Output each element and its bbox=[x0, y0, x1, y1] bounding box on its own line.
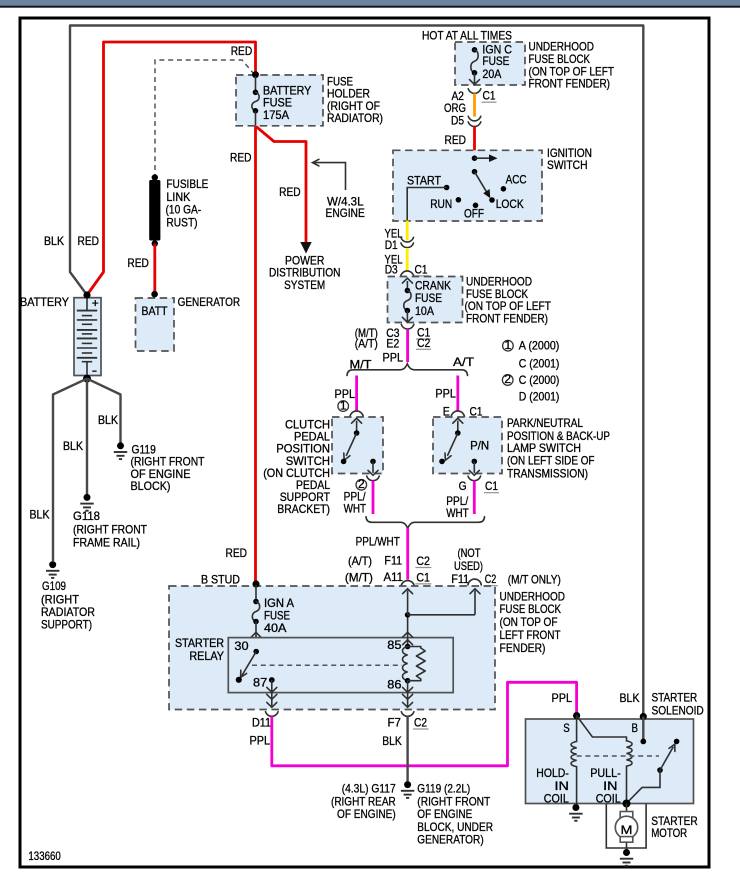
svg-text:86: 86 bbox=[387, 677, 402, 691]
svg-text:D3: D3 bbox=[385, 262, 398, 276]
svg-text:PPL: PPL bbox=[250, 734, 271, 748]
wire START to YEL bbox=[407, 188, 446, 221]
svg-text:RED: RED bbox=[230, 151, 252, 165]
ground G117/G119 bbox=[404, 781, 411, 788]
svg-text:RED: RED bbox=[127, 256, 149, 270]
svg-text:133660: 133660 bbox=[28, 849, 61, 863]
svg-text:FENDER): FENDER) bbox=[500, 641, 546, 655]
svg-text:STARTER: STARTER bbox=[652, 690, 698, 704]
wire YEL 2 bbox=[406, 248, 409, 271]
wire PPL relay to solenoid S bbox=[272, 682, 577, 766]
svg-text:G118: G118 bbox=[73, 509, 100, 523]
relay 87 exit to D11 bbox=[271, 680, 273, 707]
relay coil 85-86 with resistor bbox=[403, 632, 413, 637]
generator box bbox=[136, 298, 175, 351]
wire RED branch to power distribution bbox=[256, 126, 307, 243]
svg-text:LEFT FRONT: LEFT FRONT bbox=[500, 628, 562, 642]
node B STUD bbox=[252, 580, 259, 587]
ignition switch wiper bbox=[472, 169, 478, 175]
svg-text:IN: IN bbox=[555, 779, 569, 793]
fuse BATTERY FUSE 175A bbox=[255, 76, 257, 92]
ground G118 bbox=[84, 494, 91, 501]
svg-text:SUPPORT): SUPPORT) bbox=[41, 618, 92, 632]
contact RUN bbox=[456, 197, 462, 203]
clutch pedal position switch box bbox=[332, 417, 383, 474]
svg-text:WHT: WHT bbox=[446, 506, 469, 520]
svg-text:USED): USED) bbox=[454, 559, 483, 573]
wire BLK F7 to ground bbox=[406, 716, 408, 781]
split brace bbox=[347, 364, 468, 376]
wire RED to ignition switch bbox=[473, 127, 476, 158]
note 2 marker bbox=[356, 480, 367, 491]
park/neutral switch contacts bbox=[457, 421, 459, 433]
svg-text:IN: IN bbox=[603, 779, 617, 793]
svg-text:BATT: BATT bbox=[142, 304, 169, 318]
ignition switch feed node bbox=[472, 155, 478, 161]
svg-text:G: G bbox=[459, 479, 467, 493]
svg-text:(M/T ONLY): (M/T ONLY) bbox=[508, 572, 561, 586]
window top band bbox=[0, 0, 740, 6]
svg-text:(A/T): (A/T) bbox=[355, 336, 378, 350]
svg-text:B STUD: B STUD bbox=[201, 572, 240, 586]
fuse holder box bbox=[236, 75, 323, 126]
svg-text:HOLD-: HOLD- bbox=[536, 766, 569, 780]
svg-text:F11: F11 bbox=[451, 572, 469, 586]
svg-text:M/T: M/T bbox=[350, 357, 373, 371]
underhood fuse block box (CRANK) bbox=[388, 277, 463, 323]
wire PPL/WHT park/neutral bbox=[473, 481, 476, 514]
svg-text:87: 87 bbox=[253, 675, 268, 689]
svg-text:RED: RED bbox=[78, 234, 100, 248]
ground G109 bbox=[49, 561, 56, 568]
svg-text:C2: C2 bbox=[414, 716, 427, 730]
svg-text:C2: C2 bbox=[416, 554, 430, 568]
svg-text:10A: 10A bbox=[415, 304, 434, 318]
svg-text:(M/T): (M/T) bbox=[345, 570, 373, 584]
wire RED fusible link to generator bbox=[153, 244, 156, 294]
svg-text:D11: D11 bbox=[252, 716, 271, 730]
battery BATTERY bbox=[74, 298, 101, 376]
svg-text:B: B bbox=[632, 721, 639, 735]
svg-text:RED: RED bbox=[445, 133, 467, 147]
svg-text:BLK: BLK bbox=[63, 439, 83, 453]
svg-text:(NOT: (NOT bbox=[458, 546, 482, 560]
svg-text:1: 1 bbox=[505, 338, 512, 352]
svg-text:C (2001): C (2001) bbox=[519, 356, 560, 370]
svg-text:LOCK: LOCK bbox=[496, 197, 524, 211]
svg-text:A (2000): A (2000) bbox=[519, 338, 560, 352]
wire BLK to G118 bbox=[86, 379, 88, 494]
solenoid B terminal bbox=[640, 713, 647, 720]
clutch switch contacts bbox=[356, 421, 358, 433]
contact START bbox=[444, 185, 450, 191]
svg-text:BLK: BLK bbox=[30, 508, 50, 522]
svg-text:PPL: PPL bbox=[435, 386, 456, 400]
svg-text:RELAY: RELAY bbox=[189, 649, 224, 663]
relay 86 exit to F7 bbox=[407, 681, 409, 707]
svg-text:PPL: PPL bbox=[383, 351, 404, 365]
svg-text:GENERATOR: GENERATOR bbox=[178, 295, 241, 309]
hold-in coil bbox=[571, 716, 577, 807]
svg-text:BLOCK): BLOCK) bbox=[131, 479, 171, 493]
svg-text:STARTER: STARTER bbox=[175, 636, 224, 650]
svg-text:M: M bbox=[621, 823, 633, 837]
svg-text:ACC: ACC bbox=[506, 173, 527, 187]
svg-text:1: 1 bbox=[340, 398, 347, 412]
svg-text:RUST): RUST) bbox=[166, 215, 197, 229]
underhood fuse block / starter relay dashed box bbox=[169, 586, 495, 710]
connector clutch top bbox=[350, 411, 363, 417]
starter motor M bbox=[626, 804, 628, 812]
svg-text:FUSE BLOCK: FUSE BLOCK bbox=[500, 602, 562, 616]
svg-text:40A: 40A bbox=[264, 621, 287, 635]
svg-text:A/T: A/T bbox=[453, 355, 475, 369]
wire PPL A/T branch bbox=[456, 376, 459, 411]
hold-in coil ground bbox=[572, 804, 579, 811]
fuse IGN C FUSE 20A bbox=[472, 47, 478, 53]
starter solenoid box bbox=[526, 719, 694, 804]
underhood fuse block box (IGN C) bbox=[455, 42, 525, 85]
svg-text:(ON TOP OF: (ON TOP OF bbox=[500, 615, 558, 629]
wire dashed generator to battery-fuse node bbox=[155, 60, 255, 175]
contact OFF bbox=[473, 203, 479, 209]
svg-text:RUN: RUN bbox=[430, 197, 452, 211]
svg-text:TRANSMISSION): TRANSMISSION) bbox=[507, 466, 588, 480]
legend note 2 bbox=[502, 375, 513, 386]
node at generator BATT terminal bbox=[151, 291, 158, 298]
connector A11 arch bbox=[401, 581, 414, 587]
svg-text:PPL/WHT: PPL/WHT bbox=[356, 534, 401, 548]
svg-text:MOTOR: MOTOR bbox=[651, 826, 687, 840]
wire RED battery positive to B STUD bbox=[87, 42, 256, 584]
node battery bottom bbox=[83, 375, 91, 383]
wire BLK to G119 bbox=[87, 379, 121, 443]
ignition switch box bbox=[393, 150, 542, 221]
svg-text:BLK: BLK bbox=[98, 413, 118, 427]
svg-text:OFF: OFF bbox=[464, 207, 484, 221]
svg-text:D1: D1 bbox=[385, 238, 398, 252]
ground G119 bbox=[117, 442, 124, 449]
node at battery fuse input redraw bbox=[252, 71, 259, 78]
svg-text:PPL: PPL bbox=[552, 691, 573, 705]
svg-text:C2: C2 bbox=[485, 572, 497, 586]
fusible link (10 GA-RUST) bbox=[152, 174, 158, 180]
wire BLK to G109 bbox=[53, 379, 87, 561]
solenoid armature dashed link bbox=[577, 755, 659, 757]
svg-text:FRONT FENDER): FRONT FENDER) bbox=[466, 311, 548, 325]
svg-text:COIL: COIL bbox=[596, 792, 621, 806]
svg-text:ENGINE: ENGINE bbox=[326, 206, 365, 220]
solenoid S terminal bbox=[573, 712, 580, 719]
svg-text:BLK: BLK bbox=[382, 734, 402, 748]
svg-text:2: 2 bbox=[504, 372, 511, 386]
svg-text:F11: F11 bbox=[384, 554, 402, 568]
wire PPL M/T branch bbox=[355, 376, 358, 411]
svg-text:C2: C2 bbox=[417, 336, 431, 350]
svg-text:C1: C1 bbox=[416, 570, 430, 584]
callout arrow W/4.3L engine bbox=[313, 163, 346, 190]
svg-text:OF ENGINE): OF ENGINE) bbox=[337, 807, 396, 821]
svg-text:S: S bbox=[563, 721, 570, 735]
pull-in coil bbox=[627, 737, 633, 803]
svg-text:GENERATOR): GENERATOR) bbox=[417, 833, 483, 847]
contact ACC bbox=[501, 186, 507, 192]
svg-text:+: + bbox=[92, 296, 99, 310]
starter relay inner box bbox=[228, 638, 453, 693]
relay armature dashed link bbox=[252, 664, 402, 666]
svg-text:PULL-: PULL- bbox=[590, 766, 621, 780]
relay A11 entry bbox=[405, 612, 411, 618]
svg-text:C (2000): C (2000) bbox=[519, 373, 560, 387]
wire BLK battery positive to starter solenoid B bbox=[70, 26, 643, 717]
svg-text:D (2001): D (2001) bbox=[519, 390, 560, 404]
connector G C1 bbox=[468, 476, 481, 481]
legend note 1 bbox=[503, 340, 514, 351]
svg-text:RADIATOR): RADIATOR) bbox=[327, 111, 383, 125]
svg-text:BATTERY: BATTERY bbox=[20, 295, 69, 309]
svg-text:85: 85 bbox=[387, 638, 402, 652]
svg-text:RED: RED bbox=[231, 44, 253, 58]
svg-text:UNDERHOOD: UNDERHOOD bbox=[500, 589, 566, 603]
svg-text:PARK/NEUTRAL: PARK/NEUTRAL bbox=[507, 416, 583, 430]
connector clutch bottom bbox=[367, 476, 380, 481]
wire YEL bbox=[406, 221, 409, 241]
svg-text:C1: C1 bbox=[415, 262, 428, 276]
node pull-in coil to motor bbox=[623, 800, 631, 808]
svg-text:C1: C1 bbox=[483, 89, 496, 103]
connector C3/E2 C1/C2 bbox=[401, 324, 414, 329]
svg-text:RED: RED bbox=[279, 185, 301, 199]
wire PPL from crank fuse bbox=[406, 329, 409, 362]
svg-text:P/N: P/N bbox=[470, 438, 489, 452]
connector D1 bbox=[401, 237, 414, 242]
svg-text:START: START bbox=[407, 173, 442, 187]
svg-text:(A/T): (A/T) bbox=[348, 554, 372, 568]
node at battery fuse input bbox=[252, 71, 259, 78]
arrow to power distribution system bbox=[300, 242, 311, 254]
merge brace bbox=[366, 517, 485, 529]
connector D5 bbox=[468, 116, 481, 121]
svg-text:(RIGHT FRONT: (RIGHT FRONT bbox=[73, 523, 148, 537]
svg-text:SYSTEM: SYSTEM bbox=[284, 278, 325, 292]
svg-text:COIL: COIL bbox=[544, 792, 569, 806]
svg-text:BRACKET): BRACKET) bbox=[277, 502, 330, 516]
svg-text:WHT: WHT bbox=[344, 502, 367, 516]
connector A2 C1 bbox=[468, 89, 481, 94]
svg-text:F7: F7 bbox=[388, 716, 402, 730]
svg-text:C1: C1 bbox=[485, 479, 498, 493]
svg-text:BLK: BLK bbox=[44, 234, 64, 248]
starter motor ground bbox=[623, 849, 630, 856]
svg-text:SWITCH: SWITCH bbox=[547, 158, 588, 172]
fuse CRANK FUSE 10A bbox=[406, 281, 408, 291]
node battery top bbox=[83, 291, 90, 298]
svg-text:175A: 175A bbox=[263, 108, 289, 122]
svg-text:RED: RED bbox=[226, 546, 248, 560]
starter motor bracket bbox=[606, 804, 646, 848]
park/neutral switch box bbox=[433, 417, 502, 474]
wire PPL/WHT clutch bbox=[372, 481, 375, 514]
svg-text:FRONT FENDER): FRONT FENDER) bbox=[529, 77, 611, 91]
svg-text:A11: A11 bbox=[384, 570, 404, 584]
svg-text:FRAME RAIL): FRAME RAIL) bbox=[73, 536, 140, 550]
fuse IGN A FUSE 40A bbox=[255, 585, 257, 602]
svg-text:30: 30 bbox=[234, 639, 249, 653]
svg-text:G109: G109 bbox=[42, 579, 66, 593]
connector D3 C1 bbox=[401, 271, 414, 277]
svg-text:BLK: BLK bbox=[620, 691, 640, 705]
wire PPL/WHT to relay bbox=[406, 528, 409, 580]
note 1 marker bbox=[338, 401, 349, 412]
svg-text:D5: D5 bbox=[451, 114, 464, 128]
svg-text:SOLENOID: SOLENOID bbox=[652, 703, 704, 717]
svg-text:HOT AT ALL TIMES: HOT AT ALL TIMES bbox=[422, 29, 512, 43]
wire S to pull-in coil bbox=[577, 716, 627, 737]
solenoid switch bbox=[657, 767, 663, 773]
svg-text:20A: 20A bbox=[482, 67, 501, 81]
wire ORG bbox=[473, 93, 476, 116]
contact LOCK bbox=[489, 197, 495, 203]
svg-text:E2: E2 bbox=[386, 336, 399, 350]
